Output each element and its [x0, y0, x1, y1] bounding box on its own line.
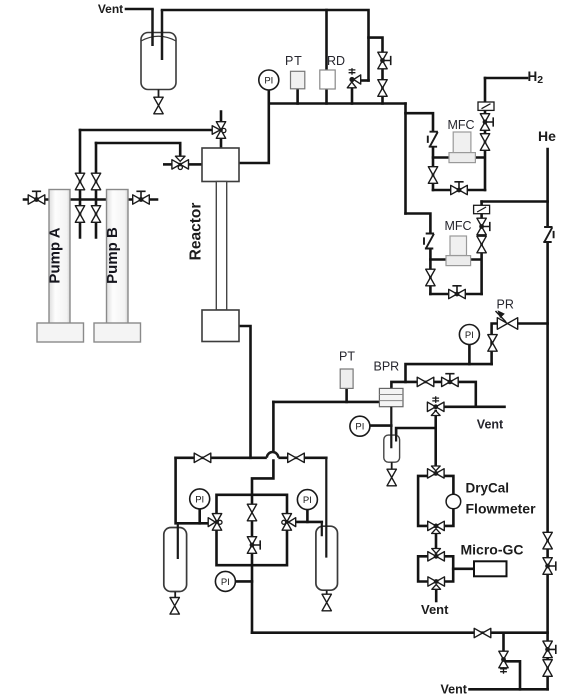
- MFC1 right ball valve: [480, 114, 493, 131]
- wire up to PR valve: [492, 324, 498, 365]
- wire He main line: [546, 149, 549, 689]
- He slash valve: [543, 227, 553, 243]
- reactor bottom box: [202, 310, 239, 342]
- wire 3way left stub: [164, 163, 172, 166]
- wire reactor outlet: [239, 326, 251, 458]
- left trap vessel: [164, 528, 187, 592]
- MFC1 right lower valve: [480, 134, 489, 151]
- MFC1 slant valve: [428, 131, 438, 147]
- manifold center ball valve lower: [247, 537, 260, 554]
- knockout pot: [384, 435, 400, 462]
- manifold center valve upper: [247, 504, 256, 521]
- wire relief stem: [351, 89, 354, 104]
- right trap vessel: [316, 526, 338, 590]
- MFC2 inlet regulator box: [474, 205, 490, 213]
- He line ball valve 3: [543, 641, 556, 658]
- wire pump feed x80: [79, 130, 82, 238]
- wire GC vent stub: [435, 589, 438, 601]
- MFC2 body: [450, 236, 467, 256]
- ball valve left of pump A: [28, 191, 45, 204]
- RD rupture disc box: [320, 70, 335, 89]
- wire BPR top outlet: [391, 382, 475, 407]
- wire bottom vent line: [470, 688, 548, 691]
- feed valves x96: [91, 173, 100, 190]
- BPR box: [379, 388, 403, 406]
- valve x382 lower: [378, 80, 387, 97]
- wire GC tap: [453, 567, 474, 570]
- wire PI-PR stem: [468, 345, 471, 365]
- svg-text:Vent: Vent: [441, 683, 468, 697]
- wire left PI stem: [198, 509, 201, 523]
- svg-text:MFC: MFC: [445, 219, 472, 233]
- wire DryCal loop: [418, 476, 453, 526]
- manifold 3way valve left: [208, 514, 222, 531]
- wire PT2 stem: [345, 388, 348, 402]
- wire MFC1 bypass: [433, 189, 485, 192]
- gauge PI BPR: [350, 416, 370, 436]
- DryCal flowmeter circle: [446, 494, 461, 509]
- 3way valve to reactor top left: [172, 156, 189, 169]
- wire top header to relief drop: [162, 10, 369, 81]
- svg-text:PT: PT: [339, 350, 355, 364]
- wire vent header mid: [444, 405, 505, 408]
- svg-text:PT: PT: [285, 54, 303, 68]
- wire RD line: [325, 10, 328, 104]
- wire down from vent 3way to DryCal: [434, 411, 437, 466]
- wire PT1 stem: [296, 89, 299, 104]
- wire bottom long line: [252, 631, 548, 634]
- wire left trap feed: [176, 458, 209, 524]
- He line ball valve 2: [543, 558, 556, 575]
- svg-text:MFC: MFC: [448, 118, 475, 132]
- trap header valves: [194, 453, 211, 462]
- wire MFC2 base tap: [430, 258, 446, 261]
- right trap drain: [326, 591, 328, 595]
- svg-text:RD: RD: [327, 54, 345, 68]
- wire PR to He line: [518, 322, 548, 325]
- wire trap header left part: [176, 456, 267, 459]
- wire H2 supply: [485, 77, 527, 80]
- ball valve on BPR outlet: [442, 374, 459, 387]
- gauge PI left trap: [190, 489, 210, 509]
- wire bottom relief branch: [504, 633, 521, 689]
- bottom relief valve: [499, 651, 508, 673]
- wire MFC1 inlet branch: [406, 113, 434, 190]
- ball valve right of pump B: [133, 191, 150, 204]
- MFC1 inlet regulator box: [478, 102, 494, 110]
- wire pot outlet: [396, 428, 436, 436]
- svg-text:Vent: Vent: [421, 602, 449, 617]
- wire right PI stem: [306, 510, 309, 522]
- reactor top box: [202, 148, 239, 182]
- GC bottom 3way valve: [428, 577, 445, 590]
- svg-text:Pump B: Pump B: [104, 227, 121, 284]
- wire GC loop: [418, 556, 453, 581]
- MFC1 base: [449, 153, 475, 163]
- manifold 3way valve right: [282, 514, 296, 531]
- wire manifold square: [217, 495, 288, 565]
- DryCal bottom 3way valve: [428, 521, 445, 533]
- gauge PI PR: [459, 325, 479, 345]
- wire PI1 stem down to reactor: [239, 90, 269, 163]
- svg-text:Vent: Vent: [477, 418, 504, 432]
- wire MFC1 right side: [475, 78, 485, 190]
- left trap drain: [174, 592, 176, 598]
- svg-text:Flowmeter: Flowmeter: [466, 501, 537, 517]
- MFC1 body: [453, 132, 471, 153]
- MFC2 slant valve: [424, 233, 434, 249]
- MFC2 right ball valve: [477, 218, 490, 235]
- wire trap header right part: [278, 456, 326, 459]
- pump A column: [0, 0, 1, 1]
- PR pressure regulator: [496, 310, 518, 329]
- svg-text:Pump A: Pump A: [47, 227, 64, 283]
- wire MFC drop from header: [404, 104, 407, 214]
- MFC2 base: [446, 256, 471, 266]
- PT2 transmitter box: [340, 369, 353, 388]
- svg-text:BPR: BPR: [374, 360, 400, 374]
- wire DryCal to GC valve: [435, 533, 438, 552]
- pump B column: [107, 190, 129, 324]
- wire branch to valve column x382: [369, 38, 383, 104]
- vessel V1 feed tank: [141, 33, 176, 90]
- reactor tube: [216, 182, 226, 311]
- wire pump manifold upper y130: [80, 129, 214, 132]
- wire manifold center down to bottom line: [251, 521, 254, 633]
- svg-text:Vent: Vent: [98, 2, 123, 16]
- wire 3way stem stub and drop to reactor: [220, 112, 223, 149]
- wire MFC2 bypass: [430, 293, 481, 296]
- wire He branch to MFC2: [482, 200, 548, 203]
- gauge PI center: [215, 571, 235, 591]
- wire center PI stem: [235, 580, 252, 583]
- wire pump manifold lower y143: [96, 143, 180, 157]
- wire pump feed x96: [95, 143, 98, 238]
- bottom line valve: [474, 628, 491, 637]
- wire BPR aux line to PR: [406, 364, 492, 382]
- 3way valve on pump manifold upper: [212, 122, 226, 139]
- pump B base: [94, 323, 141, 342]
- MFC2 left valve: [426, 269, 435, 286]
- MFC2 right lower valve: [477, 236, 486, 253]
- wire relief stub: [360, 79, 369, 82]
- wire main line to BPR: [273, 401, 379, 404]
- valve below PR: [488, 335, 497, 352]
- svg-text:Reactor: Reactor: [188, 203, 205, 261]
- wire PI-BPR stem: [369, 424, 391, 427]
- PT1 transmitter box: [291, 71, 305, 89]
- svg-text:PR: PR: [497, 298, 514, 312]
- relief valve on header: [347, 68, 360, 88]
- MFC1 bypass ball valve: [451, 182, 468, 195]
- valve on BPR outlet: [417, 377, 434, 386]
- He line valve 1: [543, 532, 552, 549]
- hop arc over BPR feed: [267, 452, 279, 459]
- feed valves x80: [75, 173, 84, 190]
- MFC1 left valve: [428, 167, 437, 184]
- vessel V1 dip tubes: [153, 9, 163, 60]
- BPR dip tube: [391, 407, 396, 449]
- left trap dip tube: [177, 523, 179, 559]
- right trap dip tubes: [322, 458, 327, 558]
- wire MFC2 inlet branch: [406, 214, 431, 295]
- pump A base: [37, 323, 84, 342]
- svg-text:He: He: [538, 128, 556, 144]
- valve under V1: [154, 97, 163, 114]
- svg-text:DryCal: DryCal: [466, 481, 510, 496]
- wire MFC1 base tap: [433, 156, 449, 159]
- wire 3way to reactor box: [189, 163, 202, 166]
- svg-text:Micro-GC: Micro-GC: [461, 542, 524, 558]
- DryCal top 3way valve: [428, 466, 445, 478]
- gauge PI header: [259, 70, 279, 90]
- gauge PI right trap: [297, 490, 317, 510]
- wire pump junction line: [24, 198, 157, 201]
- wire right trap outlet: [296, 521, 322, 524]
- wire vent top: [126, 8, 153, 11]
- wire BPR feed jog: [252, 402, 273, 505]
- pot drain: [391, 462, 393, 470]
- GC top 3way valve: [428, 549, 445, 562]
- Micro-GC box: [474, 561, 507, 576]
- MFC2 bypass ball valve: [449, 286, 466, 299]
- vent 3way valve: [427, 396, 444, 415]
- wire main feed header y103: [269, 102, 406, 105]
- vessel V1 drain stub: [158, 90, 160, 98]
- He line valve 4: [543, 660, 552, 677]
- wire MFC2 right side: [471, 202, 482, 295]
- ball valve x382 upper: [378, 52, 391, 69]
